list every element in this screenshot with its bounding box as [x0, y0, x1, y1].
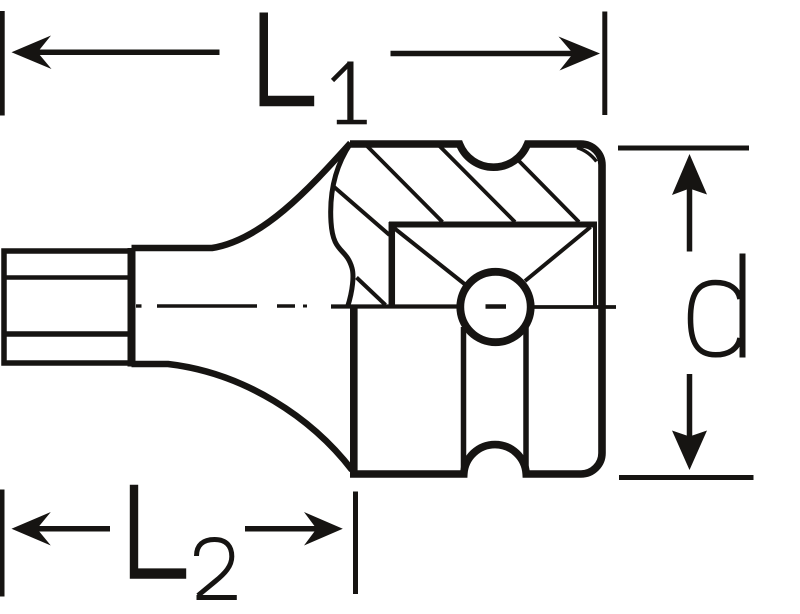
groove silhouette right vertical	[523, 324, 529, 470]
label d bowl	[691, 283, 741, 355]
chamfer diagonal left	[394, 228, 465, 284]
hatch line T1	[367, 146, 443, 222]
label L (of L2)	[130, 485, 186, 579]
L2 left arrow shaft	[36, 526, 110, 532]
groove silhouette left vertical	[461, 327, 467, 470]
centerline section bottom solid	[331, 304, 458, 308]
square drive recess right edge thin	[593, 225, 597, 309]
hatch line W1	[333, 186, 390, 235]
neck bottom edge and lower flare curve	[132, 364, 353, 470]
centerline dash inside ball	[486, 304, 507, 308]
label L (of L1)	[260, 13, 315, 107]
centerline tiny dot	[303, 305, 307, 308]
L1 right arrow shaft	[391, 51, 586, 57]
L2 left arrowhead	[12, 512, 51, 546]
hatch line T4 corner	[577, 148, 597, 162]
hatch line T3	[519, 161, 579, 222]
L1 left arrowhead	[12, 36, 52, 70]
L2 right arrowhead	[304, 512, 343, 546]
socket body outline with ring grooves and rounded corners	[350, 144, 602, 474]
d down arrow shaft	[687, 374, 693, 438]
d down arrowhead	[672, 431, 707, 471]
label subscript 1 (of L1)	[333, 62, 367, 125]
centerline dash short after shoulder	[136, 304, 142, 307]
square drive recess top edge	[389, 222, 597, 228]
d up arrowhead	[672, 154, 707, 195]
label d stem	[740, 254, 746, 358]
hatch line T2	[439, 145, 516, 222]
hatch line W2	[357, 278, 386, 306]
shoulder line hex to neck	[128, 248, 136, 367]
L1 left extension tick	[0, 11, 5, 116]
d up arrow shaft	[687, 186, 693, 252]
centerline right segment past edge	[534, 305, 616, 309]
ball detent circle	[460, 272, 530, 342]
L2 right arrow shaft	[245, 526, 320, 532]
L1 right arrowhead	[559, 37, 601, 71]
label subscript 2 (of L2)	[197, 540, 237, 598]
centerline long dash through neck	[157, 304, 257, 308]
d bottom extension line	[619, 475, 754, 480]
centerline dot dash	[277, 304, 295, 308]
neck top edge and upper flare curve	[132, 143, 351, 248]
d top extension line	[618, 146, 749, 151]
cone-to-body intersection curve	[331, 144, 353, 308]
L2 right extension tick	[353, 492, 358, 595]
square drive recess left edge	[389, 222, 396, 306]
hex bit shank outline	[4, 251, 132, 363]
hex flat line upper	[4, 275, 132, 280]
chamfer diagonal right	[525, 227, 591, 281]
L2 left extension tick	[0, 490, 5, 597]
L1 left arrow shaft	[36, 50, 220, 56]
L1 right extension tick	[602, 12, 607, 116]
hex flat line lower	[4, 331, 132, 337]
